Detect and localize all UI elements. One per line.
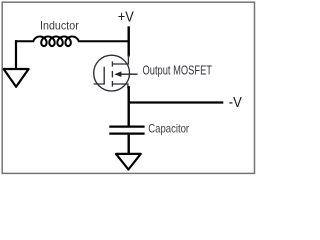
- svg-text:-V: -V: [229, 95, 242, 111]
- svg-text:Inductor: Inductor: [40, 20, 79, 33]
- inductor: [15, 37, 129, 47]
- wire: MOSFET source down to capacitor: [127, 86, 129, 126]
- label Output MOSFET with arrow: [114, 64, 212, 78]
- transistor U1: output MOSFET: [94, 55, 130, 91]
- wire: +V bus down to MOSFET drain: [127, 26, 129, 56]
- svg-text:+V: +V: [118, 10, 134, 26]
- wire: capacitor to ground: [127, 135, 129, 153]
- wire: -V rail: [129, 101, 224, 103]
- svg-text:Capacitor: Capacitor: [148, 123, 189, 136]
- wire: ground to inductor (left corner): [16, 41, 17, 68]
- svg-text:Output MOSFET: Output MOSFET: [143, 64, 213, 78]
- ground (left): [4, 69, 29, 87]
- ground (bottom): [116, 154, 141, 170]
- capacitor: [109, 127, 144, 134]
